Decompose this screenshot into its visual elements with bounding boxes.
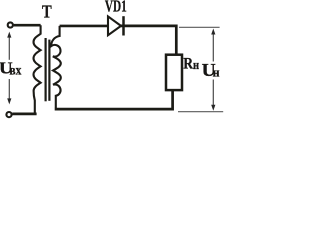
svg-text:вх: вх	[9, 63, 21, 78]
wire resistor bottom to secondary	[55, 91, 173, 109]
transformer core line left	[44, 38, 46, 101]
svg-text:н: н	[213, 65, 220, 80]
wire bottom-left from terminal to primary	[12, 113, 36, 116]
input arrow Uвх lower half	[8, 79, 10, 99]
input arrow Uвх upper half	[8, 37, 10, 60]
terminal bottom-left input	[6, 112, 11, 117]
diode VD1 cathode bar	[122, 16, 125, 35]
terminal top-left input	[8, 22, 13, 27]
transformer T secondary winding	[51, 26, 61, 108]
transformer core line right	[48, 40, 50, 101]
wire diode to resistor top	[121, 26, 176, 54]
svg-text:VD1: VD1	[105, 0, 127, 16]
svg-text:R: R	[183, 55, 193, 72]
output arrow Uн lower half	[212, 80, 214, 106]
reference line bottom right	[178, 111, 223, 113]
resistor Rн load	[166, 55, 182, 90]
transformer T primary winding	[34, 25, 41, 113]
svg-text:н: н	[193, 58, 199, 72]
reference line top right	[179, 26, 220, 28]
svg-text:T: T	[42, 1, 52, 22]
output arrow Uн upper half	[212, 34, 214, 62]
wire secondary to diode	[60, 25, 108, 28]
diode VD1 triangle anode	[108, 16, 121, 35]
wire top-left from terminal to transformer primary	[14, 24, 41, 27]
